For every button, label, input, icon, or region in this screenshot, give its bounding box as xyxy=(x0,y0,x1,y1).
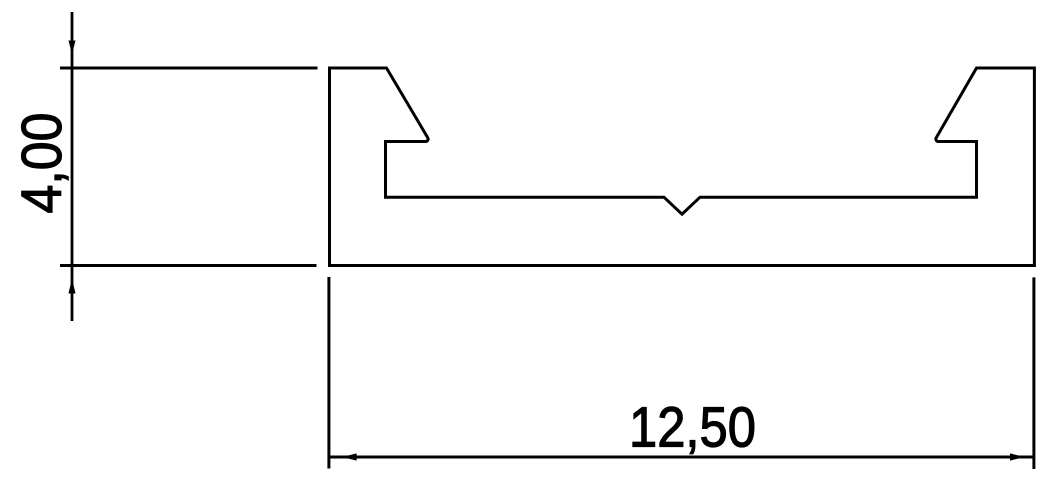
arrowhead left pointing left xyxy=(342,453,357,460)
extension line bottom-right (below profile right edge) xyxy=(1032,277,1035,469)
dimension line 4,00 vertical xyxy=(71,12,74,321)
arrowhead top pointing down xyxy=(69,41,76,55)
svg-text:4,00: 4,00 xyxy=(10,113,74,214)
dimension line 12,50 horizontal xyxy=(330,456,1033,459)
profile outline xyxy=(330,68,1035,266)
extension line bottom (profile bottom edge) xyxy=(60,264,317,267)
svg-text:12,50: 12,50 xyxy=(629,396,756,459)
extension line bottom-left (below profile left edge) xyxy=(327,277,330,469)
extension line top (profile top edge) xyxy=(60,67,318,70)
dimension text 12,50 xyxy=(629,396,756,459)
dimension text 4,00 xyxy=(10,113,74,214)
arrowhead right pointing right xyxy=(1010,453,1025,460)
arrowhead bottom pointing up xyxy=(68,279,75,294)
